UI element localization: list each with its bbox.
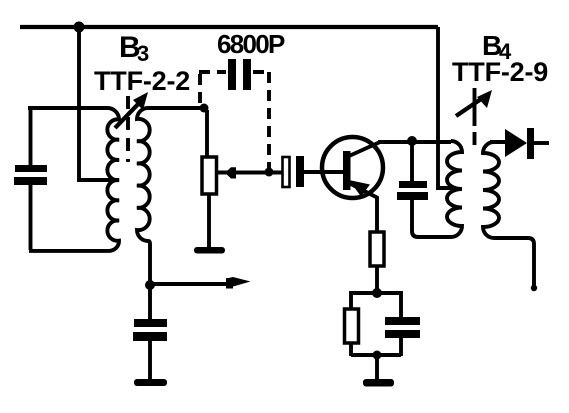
wire left branch (351, 293, 377, 309)
dashed wire 6800P left (199, 72, 226, 103)
wire collector to B4 (378, 140, 451, 144)
wire potentiometer to ground (207, 194, 211, 248)
svg-text:TTF-2-2: TTF-2-2 (94, 66, 190, 96)
diode D1 (505, 129, 527, 157)
wire C2 to ground (148, 341, 152, 380)
transformer B3 secondary winding (137, 108, 204, 281)
collector line (349, 143, 379, 157)
transformer B3 primary winding (28, 108, 119, 251)
wire down to tank capacitor (410, 144, 414, 181)
wire from top rail junction down to B3 center tap (79, 27, 114, 180)
coupling capacitor solid plate (296, 156, 304, 187)
junction dot collector wire (407, 136, 417, 146)
wiper arrowhead (225, 167, 236, 178)
capacitor C1 left tank (15, 165, 47, 172)
svg-text:6800P: 6800P (217, 29, 285, 59)
svg-text:TTF-2-9: TTF-2-9 (452, 57, 548, 87)
transformer B4 primary winding (447, 141, 462, 237)
B3 core dashed line (126, 96, 130, 162)
diode wire out (534, 141, 549, 145)
wire below R2 (349, 343, 353, 356)
wire bottom join (351, 353, 401, 357)
node junction on top rail (74, 22, 85, 33)
junction dot bottom (373, 351, 382, 360)
resistor R2 (345, 309, 359, 343)
wire to ground (375, 355, 379, 380)
wire right branch (377, 293, 401, 317)
wire node to potentiometer (205, 110, 209, 157)
capacitor 6800P (228, 59, 236, 90)
potentiometer R1 (202, 157, 217, 194)
capacitor C2 (134, 319, 167, 327)
emitter arrow (349, 180, 370, 197)
wire tank capacitor bottom (412, 200, 452, 237)
output wire end blob (531, 285, 537, 291)
output arrow wire (150, 282, 233, 286)
emitter line (349, 183, 377, 232)
B4 core dashed line (473, 88, 477, 145)
emitter resistor (370, 232, 384, 266)
svg-text:3: 3 (137, 41, 149, 66)
diode D1 wire in (490, 140, 505, 144)
node emitter network (372, 288, 382, 298)
wire left tank left side (29, 108, 33, 250)
wiper arrow wire (217, 171, 282, 175)
dashed wire 6800P right (253, 72, 269, 168)
ground under emitter network (363, 379, 394, 387)
wire base (304, 170, 346, 174)
wire top supply rail (20, 25, 438, 29)
capacitor right tank (399, 181, 427, 188)
transistor Q1 (322, 137, 383, 198)
wire down to C2 (148, 288, 152, 320)
B4 adjuster arrow (456, 95, 487, 116)
coupling capacitor hollow plate (283, 157, 290, 187)
junction dot B3 secondary bottom (145, 280, 155, 290)
node circle at B3 secondary top (200, 104, 209, 113)
transformer B4 secondary winding (483, 142, 534, 288)
B3 adjuster arrow (115, 98, 144, 128)
wire below C3 (399, 338, 403, 356)
output arrowhead (226, 277, 251, 289)
wire right end of rail down to B4 center tap (438, 27, 453, 188)
base bar (343, 151, 351, 190)
ground under C2 (134, 379, 167, 386)
junction dot on wiper wire (265, 168, 274, 177)
ground under potentiometer (194, 247, 225, 254)
wire resistor to node (375, 266, 379, 290)
capacitor C3 (385, 317, 420, 325)
